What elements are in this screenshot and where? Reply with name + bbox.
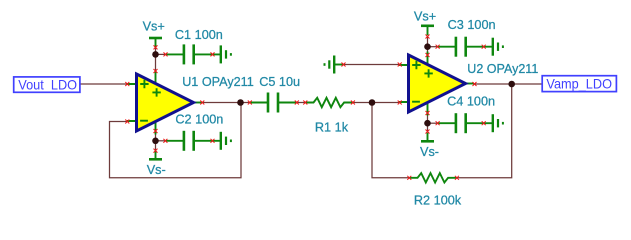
svg-text:Vs-: Vs- <box>147 163 166 177</box>
svg-text:Vout_LDO: Vout_LDO <box>18 76 77 92</box>
svg-text:U1 OPAy211: U1 OPAy211 <box>182 75 254 89</box>
svg-text:C1 100n: C1 100n <box>175 28 223 42</box>
svg-text:C5 10u: C5 10u <box>259 75 300 89</box>
svg-text:Vs+: Vs+ <box>414 10 436 24</box>
svg-text:C2 100n: C2 100n <box>175 112 223 126</box>
svg-text:R1 1k: R1 1k <box>315 120 349 134</box>
svg-text:Vamp_LDO: Vamp_LDO <box>546 76 612 92</box>
svg-text:C4 100n: C4 100n <box>447 94 495 108</box>
svg-text:C3 100n: C3 100n <box>448 18 496 32</box>
svg-text:Vs-: Vs- <box>420 145 439 159</box>
svg-text:Vs+: Vs+ <box>143 19 165 33</box>
svg-text:U2 OPAy211: U2 OPAy211 <box>467 62 538 76</box>
svg-text:R2 100k: R2 100k <box>414 194 462 208</box>
